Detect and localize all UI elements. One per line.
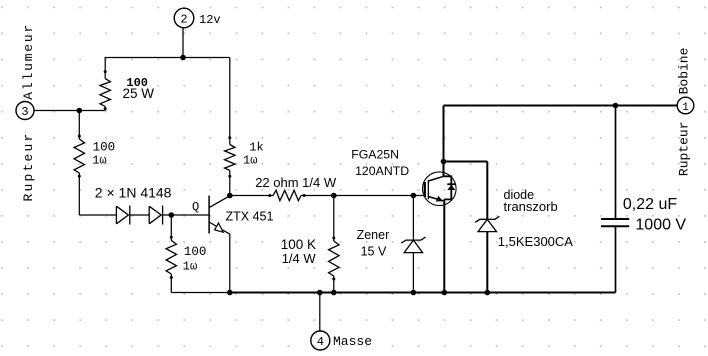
resistor R4 100 1w — [166, 236, 176, 279]
junction emitter ZTX at rail — [227, 290, 233, 296]
svg-text:1: 1 — [682, 102, 689, 114]
wire zener bottom to ground rail — [412, 253, 414, 293]
svg-text:2: 2 — [180, 12, 187, 26]
label R3 1w — [243, 154, 257, 168]
wire transzorb branch vertical — [486, 162, 488, 220]
svg-text:100: 100 — [184, 245, 207, 259]
wire top rail to terminal 1 — [444, 105, 678, 107]
svg-text:1,5KE300CA: 1,5KE300CA — [498, 234, 573, 249]
svg-text:Masse: Masse — [333, 334, 372, 349]
label 0,22 uF — [623, 196, 677, 213]
label R3 1k — [249, 141, 263, 155]
svg-text:1ω: 1ω — [183, 260, 197, 274]
wire collector junction to R5 — [230, 195, 273, 197]
IGBT gate lead and gate bar — [423, 182, 426, 197]
svg-text:12v: 12v — [199, 13, 221, 27]
label R6 1/4 W — [282, 251, 317, 266]
label 2 x 1N 4148 — [95, 185, 172, 201]
wire 12v horizontal bus — [105, 57, 230, 59]
svg-text:Zener: Zener — [357, 228, 390, 242]
label transzorb — [504, 199, 558, 214]
resistor R2 100 1w — [74, 135, 84, 178]
junction transzorb at rail — [485, 290, 491, 296]
resistor R6 100K 1/4W — [329, 237, 339, 281]
IGBT U1 FGA25N body circle — [423, 172, 457, 206]
label 1,5KE300CA — [498, 234, 573, 249]
terminal pad 1 (rupteur bobine) — [677, 97, 694, 114]
svg-text:4: 4 — [317, 335, 324, 349]
IGBT internal diode — [444, 176, 456, 199]
wire capacitor bottom lead — [615, 226, 617, 292]
junction R6 at rail — [331, 290, 337, 296]
label Rupteur (vertical, right) — [677, 121, 692, 176]
junction collector / transzorb tap — [441, 159, 447, 165]
svg-text:2 × 1N 4148: 2 × 1N 4148 — [95, 185, 172, 201]
wire IGBT collector vertical — [443, 106, 445, 177]
label R4 value 100 — [184, 245, 207, 259]
ground rail main — [230, 292, 616, 294]
svg-text:Bobine: Bobine — [677, 48, 692, 95]
zener diode D3 15V — [401, 237, 425, 253]
svg-text:15 V: 15 V — [361, 244, 387, 258]
wire transzorb bottom to ground rail — [486, 232, 488, 293]
svg-text:100 K: 100 K — [281, 237, 316, 252]
transzorb diode D4 1,5KE300CA — [475, 216, 499, 231]
svg-text:100: 100 — [93, 141, 116, 155]
label R2 1w — [92, 154, 106, 168]
label 1000 V — [635, 216, 686, 233]
wire D1 to D2 — [130, 214, 149, 216]
label Masse — [333, 334, 372, 349]
IGBT body bar — [427, 180, 429, 199]
svg-text:1000 V: 1000 V — [635, 216, 686, 233]
label diode — [504, 188, 535, 202]
svg-text:1ω: 1ω — [243, 154, 257, 168]
wire from terminal 2 down — [182, 28, 184, 58]
label Rupteur (vertical, left) — [21, 131, 36, 201]
ground rail left thin segment — [171, 292, 230, 294]
label 12v — [199, 13, 221, 27]
label FGA25N — [351, 148, 399, 162]
IGBT collector diagonal — [428, 176, 443, 181]
junction node after diodes — [169, 212, 175, 218]
label R1 value 100 — [126, 76, 148, 90]
IGBT emitter diagonal with arrow — [428, 196, 443, 202]
svg-text:25 W: 25 W — [123, 86, 155, 101]
svg-text:22 ohm 1/4 W: 22 ohm 1/4 W — [255, 175, 337, 190]
label node Q (base) — [192, 200, 199, 214]
svg-text:FGA25N: FGA25N — [351, 148, 399, 162]
terminal pad 4 (masse) — [311, 331, 330, 350]
wire R5 to IGBT gate — [301, 195, 424, 197]
wire junction down to R6 — [333, 196, 335, 242]
wire IGBT emitter down to ground rail — [443, 199, 445, 292]
junction at R6 top — [331, 193, 337, 199]
label R2 value 100 — [93, 141, 116, 155]
wire R6 bottom to ground rail — [333, 276, 335, 293]
svg-text:3: 3 — [21, 105, 28, 119]
junction at zener top — [411, 193, 417, 199]
wire R4 bottom to ground rail — [170, 274, 172, 293]
label ZTX 451 — [226, 210, 274, 224]
wire R2 bottom down and corner — [79, 173, 116, 215]
wire masse tap down — [319, 293, 321, 332]
diode D1 1N4148 — [116, 206, 129, 225]
svg-text:1ω: 1ω — [92, 154, 106, 168]
wire junction down to R2 — [78, 111, 80, 140]
resistor R1 100 25W — [100, 70, 110, 110]
svg-text:Rupteur: Rupteur — [21, 131, 36, 201]
resistor R3 1k 1w — [225, 136, 235, 178]
wire junction down to R4 — [170, 215, 172, 240]
junction IGBT emitter at rail — [442, 290, 448, 296]
diode D2 1N4148 — [149, 206, 162, 225]
wire emitter down to ground rail — [229, 234, 231, 292]
wire R1 bottom to rupteur bus — [104, 106, 106, 110]
svg-text:0,22 uF: 0,22 uF — [623, 196, 677, 213]
capacitor C1 0,22uF plates — [601, 219, 629, 226]
wire transzorb branch horizontal — [444, 161, 488, 163]
junction at 12v bus — [180, 55, 186, 61]
wire 12v bus left corner down to R1 — [104, 58, 106, 79]
wire D2 to transistor base — [163, 214, 209, 216]
label 120ANTD — [355, 164, 409, 178]
svg-text:1/4 W: 1/4 W — [282, 251, 317, 266]
terminal pad 2 (12v supply) — [174, 8, 194, 28]
junction collector node — [227, 193, 233, 199]
svg-text:ZTX 451: ZTX 451 — [226, 210, 274, 224]
junction rupteur bus — [77, 108, 83, 114]
junction masse tap at rail — [317, 290, 323, 296]
label 22 ohm 1/4 W — [255, 175, 337, 190]
label R1 25 W — [123, 86, 155, 101]
wire 12v bus right corner down to R3 — [229, 58, 231, 145]
label R6 100 K — [281, 237, 316, 252]
terminal pad 3 (rupteur allumeur) — [16, 102, 34, 120]
wire capacitor top lead — [615, 106, 617, 220]
svg-text:transzorb: transzorb — [504, 199, 558, 214]
wire terminal 3 to junction — [34, 110, 105, 112]
resistor R5 22 ohm 1/4W — [268, 190, 305, 200]
wire zener top — [412, 196, 414, 241]
label R4 1w — [183, 260, 197, 274]
svg-text:Allumeur: Allumeur — [21, 23, 36, 100]
svg-text:120ANTD: 120ANTD — [355, 164, 409, 178]
junction capacitor top — [613, 103, 619, 109]
label Zener — [357, 228, 390, 242]
label Bobine (vertical) — [677, 48, 692, 95]
svg-text:Q: Q — [192, 200, 199, 214]
wire R3 bottom to collector junction — [229, 171, 231, 196]
label Allumeur (vertical) — [21, 23, 36, 100]
svg-text:Rupteur: Rupteur — [677, 121, 692, 176]
transistor Q1 ZTX 451 (NPN) — [209, 196, 230, 235]
label 15 V — [361, 244, 387, 258]
junction zener at rail — [411, 290, 417, 296]
